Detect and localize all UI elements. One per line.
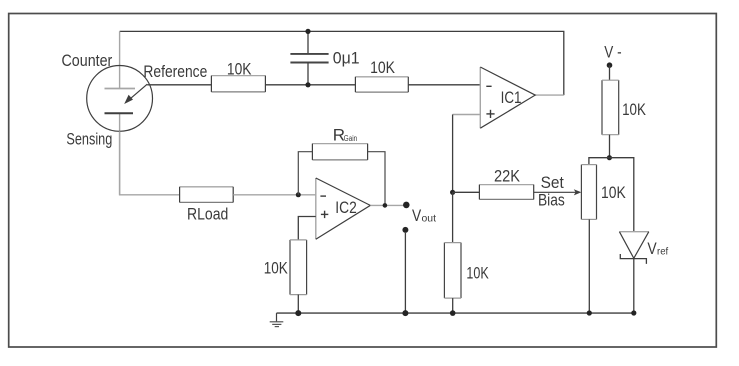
wire junction down to 10K [452,192,454,242]
svg-text:10K: 10K [466,264,489,283]
label Sensing [66,130,112,149]
wire RGain left leg [298,152,312,195]
svg-text:22K: 22K [494,166,521,185]
label Set Bias [538,173,565,210]
wire cell to RLoad [120,131,180,195]
resistor 22K [479,166,533,199]
node V- terminal [604,42,621,68]
wire lower terminal to ground rail [404,233,406,313]
wire junction to pot top [589,158,610,165]
wire 10K to ground rail [452,298,454,313]
node ground rail junction at output [402,310,408,316]
svg-text:Counter: Counter [62,51,113,70]
sensing electrode plate [105,112,134,114]
wire reference to R1 [147,84,211,86]
svg-text:Set: Set [541,173,564,192]
wire RLoad to IC2 inverting input [233,194,316,196]
svg-text:Reference: Reference [143,62,207,81]
node ground rail junction at Vref [631,310,636,315]
svg-text:10K: 10K [264,259,289,278]
wire RGain right leg [368,152,385,206]
svg-text:RLoad: RLoad [187,204,228,223]
svg-text:Bias: Bias [538,191,565,210]
svg-text:V: V [647,239,657,258]
svg-text:0μ1: 0μ1 [333,49,360,68]
svg-text:ref: ref [657,246,668,258]
wire IC1 non-inverting input [453,115,481,193]
wire R1 to R2 [265,84,355,86]
node capacitor bottom junction [305,82,310,87]
resistor 10K below set-bias junction [444,243,489,299]
label Reference [143,62,207,81]
wire pot bottom to ground rail [588,219,590,313]
wire IC2 output [370,204,403,206]
node ground rail junction at 10K [295,310,301,316]
wire junction to 22K [453,191,480,193]
svg-text:V -: V - [604,42,621,61]
svg-text:V: V [412,206,422,225]
svg-text:IC1: IC1 [501,88,522,107]
wire Vref to ground rail [633,259,635,313]
counter electrode plate [105,88,136,90]
wire 10K to pot-top junction [609,135,611,158]
capacitor C1 0u1 [290,31,359,84]
op-amp IC1 [480,67,535,128]
label Counter [62,51,113,70]
svg-text:IC2: IC2 [335,198,357,217]
wire 22K to potentiometer wiper arrow [534,189,582,195]
node ground rail junction at pot [587,310,592,315]
resistor 10K below IC2 [264,240,307,295]
wire sensing electrode vertical [119,113,121,195]
node IC2 output feedback junction [383,203,388,208]
wire IC1 output stub [535,94,564,96]
svg-text:Gain: Gain [344,134,357,143]
reference arrow [124,84,147,104]
wire ground rail [277,312,634,314]
node lower output terminal [402,227,408,233]
wire top feedback rail [120,31,564,95]
electrochemical cell circle [87,66,153,132]
svg-text:Sensing: Sensing [66,130,112,149]
potentiometer 10K [581,165,626,220]
wire IC2 non-inverting input [298,217,316,240]
resistor R2 10K [355,58,408,92]
wire junction to Vref branch [609,158,633,232]
resistor RLoad [180,187,234,224]
wire counter electrode vertical [119,31,121,88]
wire R2 to IC1 inverting input [408,84,480,86]
resistor RGain [312,125,367,160]
node capacitor top junction [305,29,310,34]
svg-text:10K: 10K [370,58,395,77]
node IC2 inverting junction [296,192,301,197]
resistor R1 10K [211,60,265,92]
node ground rail junction at 10K right [450,310,456,316]
node pot top junction [607,155,612,160]
op-amp IC2 [316,178,371,239]
svg-text:out: out [422,213,437,225]
svg-text:10K: 10K [622,100,646,119]
svg-text:10K: 10K [601,183,626,202]
svg-text:10K: 10K [227,60,252,79]
ground symbol [270,313,284,327]
node set-bias junction [450,190,455,195]
wire 10K to ground rail [297,295,299,314]
zener reference Vref [619,232,668,264]
node Vout terminal [403,202,436,225]
wire V- to 10K [609,65,611,80]
resistor 10K from V- [602,80,646,135]
